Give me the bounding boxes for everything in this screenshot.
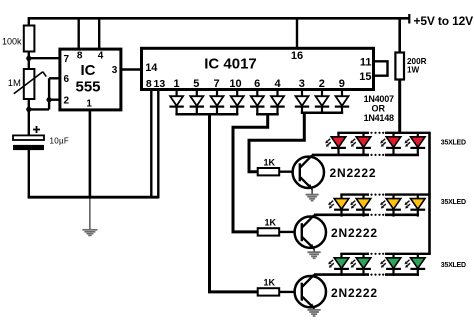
LED green2 bbox=[350, 254, 371, 276]
wire junction vertical pin6 to node B bbox=[48, 78, 50, 109]
wire bus1 to Q3 1K bbox=[210, 114, 258, 292]
LED yellow2 bbox=[350, 195, 371, 217]
diode D6 bbox=[270, 90, 284, 115]
svg-text:+5V to 12V: +5V to 12V bbox=[414, 14, 474, 28]
wire C1 to ground rail bbox=[28, 150, 30, 197]
wire to 555 pin2 bbox=[49, 98, 60, 100]
LED yellow3 bbox=[380, 195, 401, 217]
resistor R2 200R bbox=[398, 19, 401, 53]
wire green row anode bus bbox=[340, 253, 430, 255]
wire Q1 emitter bbox=[311, 189, 313, 194]
transistor Q3 2N2222 bbox=[295, 275, 326, 309]
svg-text:IC: IC bbox=[81, 62, 96, 79]
right bus connecting LED rows bbox=[428, 133, 431, 254]
wire Q2 emitter bbox=[313, 249, 315, 252]
svg-text:1N4007: 1N4007 bbox=[364, 94, 394, 104]
bus group 2 (pins 6,4) bbox=[256, 113, 279, 116]
diode D3 bbox=[210, 90, 224, 115]
svg-text:10: 10 bbox=[229, 78, 241, 90]
svg-text:7: 7 bbox=[64, 54, 70, 65]
svg-text:7: 7 bbox=[214, 78, 220, 90]
wire 555 pin1 to ground rail bbox=[89, 110, 92, 197]
wire node B to pin6/pin2 junction bbox=[29, 108, 49, 110]
svg-text:2N2222: 2N2222 bbox=[331, 226, 378, 240]
LED green3 bbox=[380, 254, 401, 276]
diode D1 bbox=[169, 90, 183, 115]
svg-text:1K: 1K bbox=[264, 278, 276, 288]
svg-text:8: 8 bbox=[77, 50, 83, 61]
wire VR1 to node B bbox=[28, 99, 30, 109]
svg-text:IC 4017: IC 4017 bbox=[204, 56, 257, 73]
wire red row anode bus bbox=[337, 132, 430, 134]
diode D9 bbox=[335, 90, 349, 113]
svg-text:2: 2 bbox=[64, 96, 70, 107]
svg-text:1K: 1K bbox=[265, 218, 277, 228]
svg-text:10µF: 10µF bbox=[50, 137, 70, 146]
svg-text:9: 9 bbox=[339, 78, 345, 90]
svg-text:2: 2 bbox=[319, 78, 325, 90]
wire R1 to node A bbox=[28, 52, 30, 59]
wire yellow row cathode bus to collector bbox=[314, 214, 419, 217]
wire rail to R1 bbox=[28, 17, 30, 26]
svg-text:8: 8 bbox=[146, 78, 152, 90]
ground rail bbox=[28, 196, 159, 199]
LED red4 bbox=[405, 133, 426, 155]
wire 4017 pin13 to ground rail bbox=[157, 90, 159, 199]
ground Q3 bbox=[308, 310, 321, 316]
svg-text:4: 4 bbox=[274, 78, 281, 90]
svg-text:35XLED: 35XLED bbox=[441, 140, 466, 147]
LED green1 bbox=[328, 254, 349, 276]
capacitor C1 10uF bbox=[13, 135, 44, 140]
LED green4 bbox=[405, 254, 426, 276]
svg-text:1M: 1M bbox=[8, 78, 21, 89]
svg-text:15: 15 bbox=[359, 71, 371, 83]
wire green row cathode bus to collector bbox=[314, 273, 419, 276]
svg-text:1K: 1K bbox=[264, 157, 276, 167]
+V rail bbox=[28, 17, 409, 20]
wire red row cathode bus to collector bbox=[312, 154, 419, 157]
wire 555 pin3 to 4017 pin14 bbox=[121, 68, 142, 70]
node B bbox=[26, 107, 31, 112]
LED red2 bbox=[350, 133, 371, 155]
resistor 1K (Q2) bbox=[258, 228, 280, 235]
svg-text:1W: 1W bbox=[407, 65, 420, 74]
wire node A to VR1 bbox=[28, 58, 30, 69]
wire to 555 pin6 bbox=[49, 77, 60, 79]
svg-text:3: 3 bbox=[112, 65, 118, 76]
resistor R1 100k bbox=[24, 26, 35, 52]
wire 200R to red LED bus bbox=[398, 80, 401, 135]
IC U2 4017 box bbox=[142, 48, 374, 89]
svg-text:2N2222: 2N2222 bbox=[330, 166, 377, 180]
ground (main) bbox=[82, 230, 97, 236]
wire 555 pin4 to rail bbox=[98, 19, 100, 49]
wire ground rail to ground symbol bbox=[89, 199, 91, 230]
svg-text:16: 16 bbox=[291, 50, 303, 62]
resistor 1K (Q1) bbox=[258, 168, 280, 175]
node C pin2 junction bbox=[47, 97, 52, 102]
svg-text:1: 1 bbox=[174, 78, 180, 90]
diode D4 bbox=[230, 90, 244, 115]
svg-text:2N2222: 2N2222 bbox=[331, 286, 378, 300]
wire Q3 emitter bbox=[313, 307, 315, 309]
bus group 3 (pins 3,2,9) bbox=[301, 112, 343, 115]
ground Q2 bbox=[308, 252, 321, 258]
potentiometer VR1 1M bbox=[24, 69, 35, 99]
+V terminal tick bbox=[408, 14, 410, 24]
node A bbox=[26, 56, 31, 61]
svg-text:4: 4 bbox=[98, 50, 104, 61]
svg-text:5: 5 bbox=[193, 78, 199, 90]
wire 4017 pin8 to ground rail bbox=[150, 90, 152, 198]
svg-text:1: 1 bbox=[86, 99, 92, 110]
diode D2 bbox=[190, 90, 204, 115]
wire 4017 pin11-15 bracket bbox=[374, 61, 388, 75]
resistor 1K (Q3) bbox=[258, 288, 280, 295]
wire bus3 to Q1 1K bbox=[249, 113, 304, 172]
svg-text:11: 11 bbox=[360, 57, 372, 69]
LED red1 bbox=[325, 133, 346, 155]
wire yellow row anode bus bbox=[340, 193, 430, 195]
diode D7 bbox=[295, 90, 309, 113]
diode D5 bbox=[250, 90, 264, 115]
svg-text:1N4148: 1N4148 bbox=[364, 113, 394, 123]
svg-text:6: 6 bbox=[64, 74, 70, 85]
diode D8 bbox=[315, 90, 329, 113]
svg-text:13: 13 bbox=[154, 78, 166, 90]
wire 555 pin8 to rail bbox=[77, 19, 79, 49]
wire bus2 to Q2 1K bbox=[233, 114, 268, 232]
svg-text:100k: 100k bbox=[2, 37, 22, 47]
svg-text:3: 3 bbox=[299, 78, 305, 90]
svg-text:35XLED: 35XLED bbox=[441, 199, 466, 206]
transistor Q2 2N2222 bbox=[295, 215, 326, 249]
wire node A to 555 pin7 bbox=[29, 57, 60, 59]
wire node B to C1 bbox=[28, 109, 30, 135]
LED red3 bbox=[380, 133, 401, 155]
svg-text:6: 6 bbox=[254, 78, 260, 90]
svg-text:14: 14 bbox=[145, 62, 158, 74]
svg-text:35XLED: 35XLED bbox=[441, 262, 466, 269]
ground Q1 bbox=[306, 195, 319, 201]
svg-text:OR: OR bbox=[372, 103, 386, 113]
LED yellow1 bbox=[328, 195, 349, 217]
wire 4017 pin16 to rail bbox=[296, 19, 298, 48]
IC U1 555 bbox=[60, 49, 121, 110]
LED yellow4 bbox=[405, 195, 426, 217]
bus group 1 (pins 1,5,7,10) bbox=[175, 113, 238, 116]
svg-text:555: 555 bbox=[75, 79, 100, 96]
transistor Q1 2N2222 bbox=[293, 155, 324, 189]
